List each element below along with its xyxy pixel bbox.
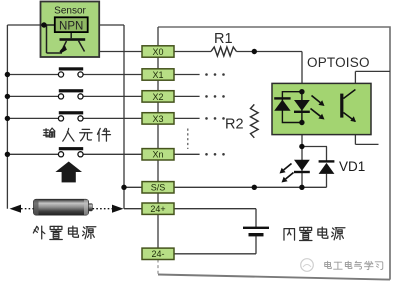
svg-text:24+: 24+	[150, 204, 165, 214]
svg-text:X3: X3	[152, 114, 163, 124]
svg-text:X0: X0	[152, 47, 163, 57]
svg-text:NPN: NPN	[59, 21, 83, 33]
svg-text:Sensor: Sensor	[54, 6, 86, 17]
svg-text:OPTOISO: OPTOISO	[307, 55, 370, 70]
svg-text:VD1: VD1	[339, 159, 365, 174]
svg-text:R1: R1	[214, 31, 233, 47]
svg-text:S/S: S/S	[151, 183, 166, 193]
svg-text:24-: 24-	[151, 249, 164, 259]
svg-text:R2: R2	[225, 117, 244, 133]
svg-text:Xn: Xn	[152, 150, 163, 160]
svg-text:X1: X1	[152, 70, 163, 80]
svg-text:X2: X2	[152, 92, 163, 102]
